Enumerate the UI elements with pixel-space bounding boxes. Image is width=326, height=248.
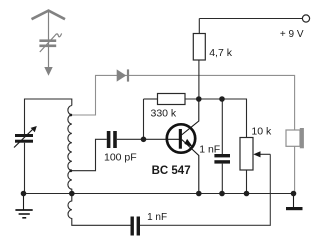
terminal +9V: [302, 15, 309, 22]
wire: 1nF bottom to rail: [221, 164, 223, 194]
svg-text:330 k: 330 k: [151, 108, 177, 120]
potentiometer 10k: [240, 138, 253, 171]
transistor base bar: [179, 129, 182, 149]
variable capacitor arrow: [14, 129, 33, 148]
wire: 4.7k bottom to collector node: [198, 60, 200, 99]
node gnd emitter: [196, 191, 202, 197]
capacitor 1nF (bottom): [131, 217, 141, 236]
wire: pot bottom to rail: [246, 170, 248, 194]
wire: +9V rail: [199, 18, 302, 20]
node gnd pot: [244, 191, 250, 197]
node gnd speaker: [291, 191, 297, 197]
capacitor 100pF: [107, 131, 117, 148]
wire: 4.7k top: [198, 19, 200, 34]
ground symbol left: [15, 194, 32, 218]
wire: base node up to 330k: [143, 99, 145, 139]
svg-text:1 nF: 1 nF: [147, 212, 167, 223]
svg-text:1 nF: 1 nF: [199, 143, 220, 155]
diode D1: [117, 69, 129, 81]
capacitor 1nF (middle): [214, 154, 230, 164]
svg-text:+ 9 V: + 9 V: [280, 29, 304, 40]
inductor L1 bottom winding: [68, 194, 131, 226]
loudspeaker: [286, 128, 304, 148]
svg-text:4,7 k: 4,7 k: [209, 47, 233, 59]
node gnd coil: [69, 191, 75, 197]
node base: [141, 137, 147, 143]
wire: 330k right to pot top corner: [185, 99, 247, 138]
svg-text:BC 547: BC 547: [152, 165, 191, 177]
base wire into circle: [167, 138, 179, 140]
wire: feedback wiper down and left to 1nF: [140, 154, 270, 225]
trimmer adjust stroke: [40, 33, 62, 52]
node gnd varcap: [21, 191, 27, 197]
collector lead: [182, 99, 199, 135]
wire: coil tap2 to 100pF: [71, 139, 107, 170]
wire: 330k left: [144, 98, 158, 100]
wire: top rail varcap to coil: [25, 99, 72, 134]
emitter lead: [182, 140, 199, 194]
tap2: [69, 169, 72, 172]
resistor 330k: [158, 94, 186, 105]
svg-text:10 k: 10 k: [251, 126, 272, 138]
wire: varcap bottom to ground rail: [24, 143, 26, 194]
node collector: [196, 96, 202, 102]
emitter arrow: [184, 139, 193, 147]
svg-text:100 pF: 100 pF: [104, 152, 137, 164]
ground symbol right (bar): [293, 194, 295, 208]
trimmer capacitor plates: [39, 39, 56, 47]
wire: collector node to 1nF cap: [221, 99, 223, 154]
tap1: [69, 114, 72, 117]
inductor L1 top winding: [68, 106, 72, 194]
wire: 100pF to base node: [117, 138, 167, 140]
resistor 4.7k: [193, 34, 205, 61]
variable capacitor plates: [15, 134, 33, 143]
wire: speaker bottom to ground node: [294, 146, 296, 193]
pot wiper arrow: [260, 153, 271, 155]
wire: coil tap to diode to speaker (detector net): [71, 75, 295, 130]
antenna arrow down: [44, 67, 52, 76]
transistor Q1 circle: [167, 124, 195, 152]
node 1nF top: [219, 96, 225, 102]
antenna: [32, 11, 66, 68]
ground rail: [24, 193, 294, 195]
node gnd 1nF: [219, 191, 225, 197]
